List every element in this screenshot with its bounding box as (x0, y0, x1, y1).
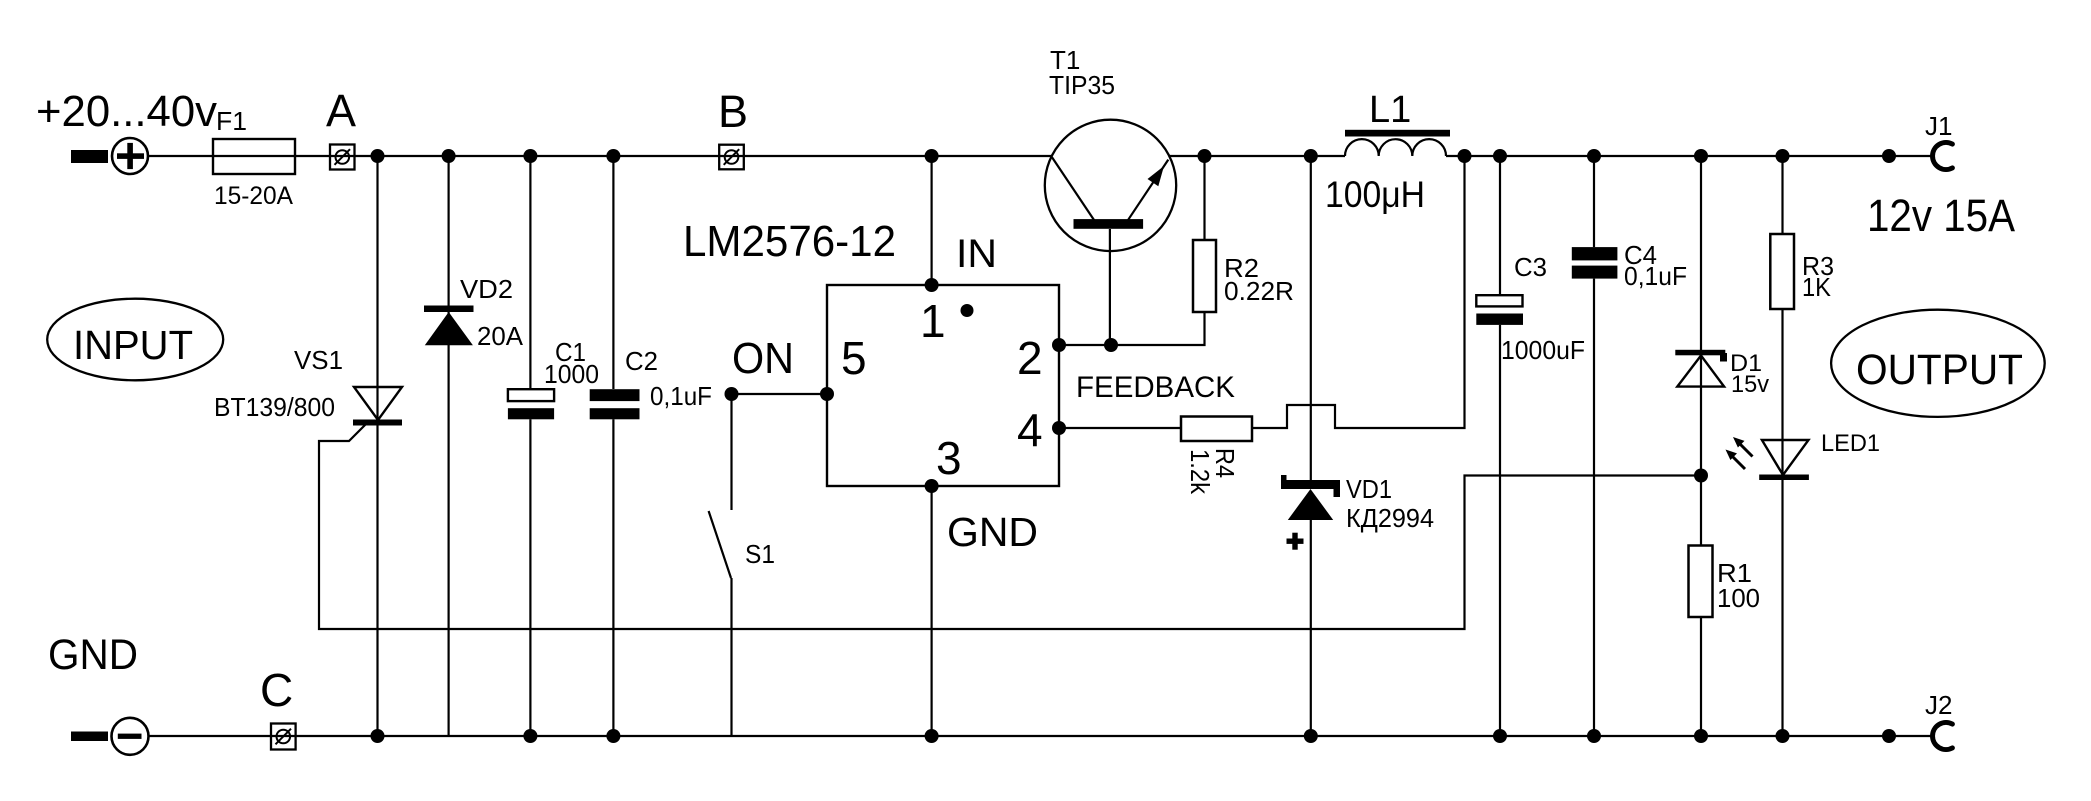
pin 3 dot (925, 479, 939, 493)
node A (330, 145, 355, 170)
svg-text:20A: 20A (477, 321, 524, 351)
wire D1 top (1700, 156, 1702, 546)
transistor T1 collector diagonal (1052, 157, 1094, 220)
transistor T1 emitter diagonal (1128, 160, 1168, 221)
wire top rail right (1169, 155, 1933, 157)
svg-text:3: 3 (936, 432, 962, 484)
pin IN dot (925, 278, 939, 292)
wire R1 to bottom rail (1700, 617, 1702, 736)
svg-text:GND: GND (48, 631, 138, 679)
LED1 triangle (1762, 440, 1809, 475)
wire R2 bottom to pin 2 (1059, 312, 1205, 345)
resistor R1 (1689, 546, 1713, 618)
svg-text:C: C (260, 664, 293, 716)
INPUT ellipse (47, 299, 223, 381)
svg-text:15v: 15v (1731, 371, 1769, 398)
svg-text:0.22R: 0.22R (1224, 276, 1294, 306)
LED1 cathode bar (1759, 475, 1809, 481)
pin 1 marker dot (961, 304, 974, 317)
svg-text:0,1uF: 0,1uF (1624, 261, 1687, 291)
diode VD1 bar right tick (1334, 480, 1341, 497)
svg-text:A: A (326, 85, 356, 136)
wire vertical VD2 (448, 156, 450, 736)
wire bottom rail (148, 735, 1933, 737)
wire R2 top (1203, 156, 1205, 240)
wire vertical C1 top (529, 156, 531, 389)
inductor L1 core bar (1345, 130, 1450, 137)
junction dots top rail (371, 149, 1897, 163)
wire C4 top (1593, 156, 1595, 247)
wire ON to pin 5 (732, 394, 828, 510)
node B (719, 145, 744, 170)
resistor R3 (1770, 234, 1794, 309)
connector J1 (1933, 143, 1953, 170)
node ON junction dot (725, 387, 739, 401)
thyristor VS1 cathode bar (353, 420, 402, 426)
pin 4 dot (1052, 421, 1066, 435)
svg-text:0,1uF: 0,1uF (650, 381, 712, 411)
wire GND vertical (930, 486, 932, 736)
input terminal plus (71, 138, 148, 174)
svg-text:B: B (718, 86, 748, 137)
diode VD2 triangle (425, 312, 473, 345)
svg-text:VD2: VD2 (460, 274, 513, 304)
resistor R2 (1193, 240, 1216, 312)
svg-text:1K: 1K (1802, 272, 1832, 302)
wire S1 to bottom rail (730, 578, 732, 736)
zener D1 triangle (1677, 356, 1724, 387)
diode VD1 triangle (1288, 489, 1333, 520)
diode VD2 cathode bar (424, 306, 474, 313)
svg-text:IN: IN (956, 232, 997, 276)
svg-text:C2: C2 (625, 346, 658, 376)
thyristor VS1 gate wire (319, 424, 1701, 629)
capacitor C4 bottom plate (1572, 266, 1618, 279)
transistor T1 circle (1045, 120, 1176, 251)
svg-text:OUTPUT: OUTPUT (1856, 346, 2023, 394)
inductor L1 coil (1345, 139, 1446, 156)
wire C3 top (1499, 156, 1501, 295)
OUTPUT ellipse (1831, 310, 2045, 417)
wire vertical node A to bottom rail (376, 156, 378, 736)
wire vertical C1 bottom (529, 419, 531, 736)
capacitor C3 bottom plate (1476, 314, 1523, 325)
wire C4 bottom (1593, 279, 1595, 736)
svg-text:J1: J1 (1925, 111, 1952, 141)
svg-text:1000uF: 1000uF (1501, 335, 1585, 365)
svg-text:TIP35: TIP35 (1049, 70, 1115, 100)
op-amp U1 IC box LM2576 (827, 285, 1059, 486)
wire VD1 vertical top (1310, 156, 1312, 489)
capacitor C1 bottom plate (508, 408, 554, 419)
pin 2 dot (1052, 338, 1066, 352)
capacitor C4 top plate (1572, 247, 1618, 260)
wire IN vertical (930, 156, 932, 285)
svg-text:L1: L1 (1369, 89, 1411, 131)
svg-text:ON: ON (732, 334, 794, 383)
wire R4 hop over VD1 line (1252, 156, 1465, 428)
wire T1 base vertical (1109, 229, 1111, 345)
svg-text:F1: F1 (216, 106, 247, 136)
svg-text:FEEDBACK: FEEDBACK (1076, 371, 1235, 404)
resistor R4 (1181, 417, 1252, 442)
svg-text:INPUT: INPUT (73, 322, 193, 368)
svg-text:4: 4 (1017, 404, 1043, 456)
svg-text:1000: 1000 (544, 359, 599, 389)
transistor T1 emitter arrowhead (1148, 166, 1165, 186)
wire R3 top (1781, 156, 1783, 234)
svg-text:C3: C3 (1514, 252, 1547, 282)
svg-text:1.2k: 1.2k (1185, 449, 1215, 495)
wire R3 to LED1 (1781, 309, 1783, 736)
svg-text:12v 15A: 12v 15A (1867, 190, 2015, 241)
wire pin 4 to R4 (1059, 427, 1181, 429)
svg-text:LED1: LED1 (1821, 430, 1880, 457)
VD1 plus sign (1287, 539, 1304, 544)
wire C3 bottom (1499, 325, 1501, 736)
output terminal minus (71, 718, 149, 755)
capacitor C3 top plate (1476, 295, 1522, 306)
diode VD1 cathode bar (1284, 480, 1336, 489)
svg-text:LM2576-12: LM2576-12 (683, 217, 896, 266)
capacitor C1 top plate (508, 389, 554, 401)
svg-text:GND: GND (947, 509, 1038, 555)
wire vertical C2 top (612, 156, 614, 389)
svg-text:S1: S1 (745, 539, 775, 569)
LED1 arrow 2 (1726, 450, 1746, 470)
capacitor C2 top plate (590, 389, 640, 401)
node C (271, 724, 296, 750)
D1 R1 junction dot (1694, 469, 1708, 483)
LED1 arrow 1 (1733, 437, 1753, 457)
svg-text:VS1: VS1 (294, 345, 343, 375)
pin 5 dot (820, 387, 834, 401)
svg-text:15-20A: 15-20A (214, 182, 293, 210)
svg-text:100μH: 100μH (1325, 174, 1425, 215)
wire VD1 to bottom rail (1310, 520, 1312, 736)
zener D1 cathode bar (1675, 350, 1725, 356)
svg-text:100: 100 (1717, 583, 1760, 613)
svg-text:КД2994: КД2994 (1346, 503, 1434, 533)
switch S1 blade (709, 511, 731, 578)
svg-text:5: 5 (841, 332, 867, 384)
svg-text:BT139/800: BT139/800 (214, 392, 335, 422)
fuse F1 (213, 139, 295, 174)
svg-text:+20...40v: +20...40v (36, 87, 217, 136)
capacitor C2 bottom plate (590, 408, 640, 419)
svg-text:2: 2 (1017, 332, 1043, 384)
zener D1 bar right hook (1720, 353, 1727, 362)
svg-text:1: 1 (920, 295, 946, 347)
svg-text:VD1: VD1 (1346, 474, 1392, 504)
thyristor VS1 triangle (354, 387, 402, 420)
junction dots bottom rail (371, 729, 1897, 743)
transistor T1 base bar (1074, 219, 1144, 229)
wire top rail left (148, 155, 1052, 157)
connector J2 (1933, 723, 1953, 750)
wire vertical C2 bottom (612, 419, 614, 736)
svg-text:J2: J2 (1925, 690, 1952, 720)
T1 base junction dot (1104, 338, 1118, 352)
diode VD1 bar left tick (1281, 475, 1287, 489)
